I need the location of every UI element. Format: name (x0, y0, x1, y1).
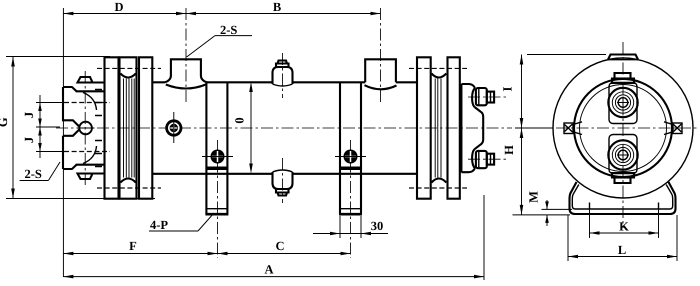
port 1 centerline (185, 8, 187, 104)
bonnet top boss 2-S port (78, 77, 93, 83)
bracket 2 centerline (350, 140, 352, 258)
bolt hidden line lower left (97, 187, 161, 189)
bottom drain plug (273, 158, 293, 203)
flange 1 (tube sheet) (105, 57, 119, 198)
foot slot marks (590, 203, 659, 210)
dimension O (shell diameter) (233, 82, 253, 174)
svg-text:K: K (619, 220, 629, 234)
dimension G (0, 57, 155, 199)
shell port 2 (oil, top right) (365, 59, 396, 82)
svg-text:J: J (22, 112, 36, 118)
bracket 1 centerline (217, 140, 219, 258)
shell bottom line (152, 173, 417, 175)
svg-text:D: D (114, 0, 123, 14)
bolt hidden line upper left (97, 67, 161, 69)
svg-text:F: F (129, 239, 137, 253)
end view horizontal centerline (515, 127, 699, 129)
left clamp lug (564, 122, 582, 135)
left roll bead top (120, 74, 135, 78)
right roll corrugations (435, 79, 441, 178)
top vent plug (273, 53, 293, 98)
mounting foot inner line (572, 185, 672, 210)
dimension L (568, 215, 677, 261)
mounting bracket 1 (202, 82, 233, 214)
cap waist (475, 107, 484, 149)
main horizontal centerline (side view axis) (56, 127, 512, 129)
svg-text:2-S: 2-S (25, 167, 42, 181)
bonnet rib arc upper (83, 93, 97, 111)
dimension 30 (foot width) (313, 216, 388, 238)
top shell-port tab (608, 55, 638, 60)
port 2 saddle (365, 85, 397, 89)
svg-text:G: G (0, 117, 10, 127)
bottom water port pad (609, 135, 637, 174)
right shell end ring (417, 57, 431, 198)
svg-text:0: 0 (233, 117, 247, 123)
dimension F (63, 239, 217, 255)
shell drain bolt (165, 112, 182, 143)
dimension A (63, 195, 484, 280)
right roll bead top (432, 74, 447, 78)
left clamp ring (139, 57, 152, 198)
dimension I (501, 55, 607, 129)
cap bottom boss axis (468, 158, 506, 160)
left roll bead bottom (120, 179, 135, 183)
svg-text:J: J (22, 137, 36, 143)
right end cap outline (461, 84, 475, 172)
bonnet boss centerline (84, 71, 86, 185)
bonnet bottom boss 2-S port (78, 174, 93, 180)
right flange 2 (448, 57, 460, 198)
top water port pad (609, 83, 637, 124)
cap bottom boss fitting (476, 151, 494, 168)
cap top boss fitting (476, 88, 494, 105)
label 2-S (left, bonnet ports) (20, 162, 60, 181)
mounting foot outline (570, 182, 676, 214)
dimension M (513, 191, 573, 226)
bottom drain plug end-on (612, 173, 634, 183)
bonnet spigot circle (574, 79, 672, 177)
cap bottom bell (472, 149, 475, 168)
label 2-S (top, shell ports) (187, 23, 252, 57)
left rolled joint outer (120, 57, 137, 198)
svg-text:M: M (527, 191, 541, 203)
label 4-P (mounting feet) (149, 213, 214, 232)
shell port 1 (oil, top left) (165, 59, 207, 82)
svg-text:I: I (501, 86, 515, 91)
left roll corrugations (124, 79, 135, 178)
dimension J (lower) (22, 127, 42, 152)
cap top bell (472, 88, 475, 107)
svg-text:4-P: 4-P (150, 218, 168, 232)
svg-text:H: H (502, 145, 516, 155)
bonnet top profile (63, 83, 106, 92)
inner face circle (580, 85, 667, 172)
tube ends in bonnet (95, 90, 102, 167)
outer shell circle (553, 58, 693, 198)
right roll bead bottom (432, 179, 447, 183)
bonnet port hidden line lower (64, 151, 110, 153)
left extension line (overall A/D/F datum) (62, 8, 64, 277)
bonnet rib arc lower (83, 146, 97, 164)
port 2 centerline (380, 8, 382, 104)
right clamp lug (664, 122, 682, 135)
svg-text:2-S: 2-S (220, 23, 237, 37)
dimension J (upper) (22, 95, 62, 158)
mounting bracket 2 (335, 82, 366, 214)
bonnet bottom profile (63, 165, 106, 174)
svg-text:A: A (264, 263, 273, 277)
port 1 saddle (166, 85, 206, 89)
bolt hidden line lower right (409, 187, 467, 189)
cap top boss axis (468, 96, 506, 98)
cap left face (460, 84, 462, 172)
svg-text:C: C (275, 239, 284, 253)
top water port fitting (608, 88, 637, 117)
bonnet left wall (63, 87, 79, 169)
end view vertical centerline (622, 42, 624, 228)
dimension H (502, 128, 523, 215)
svg-text:B: B (273, 0, 281, 14)
top vent plug end-on (612, 73, 634, 83)
bonnet center circle (79, 122, 92, 135)
dimension K (590, 204, 659, 238)
dimension D (63, 0, 186, 15)
shell top line (152, 81, 417, 83)
bolt hidden line upper right (409, 67, 467, 69)
svg-text:L: L (618, 243, 626, 257)
dimension C (218, 239, 351, 255)
bottom water port fitting (608, 140, 637, 169)
svg-text:30: 30 (371, 219, 384, 233)
dimension B (186, 0, 381, 15)
bonnet port hidden line upper (64, 102, 110, 104)
